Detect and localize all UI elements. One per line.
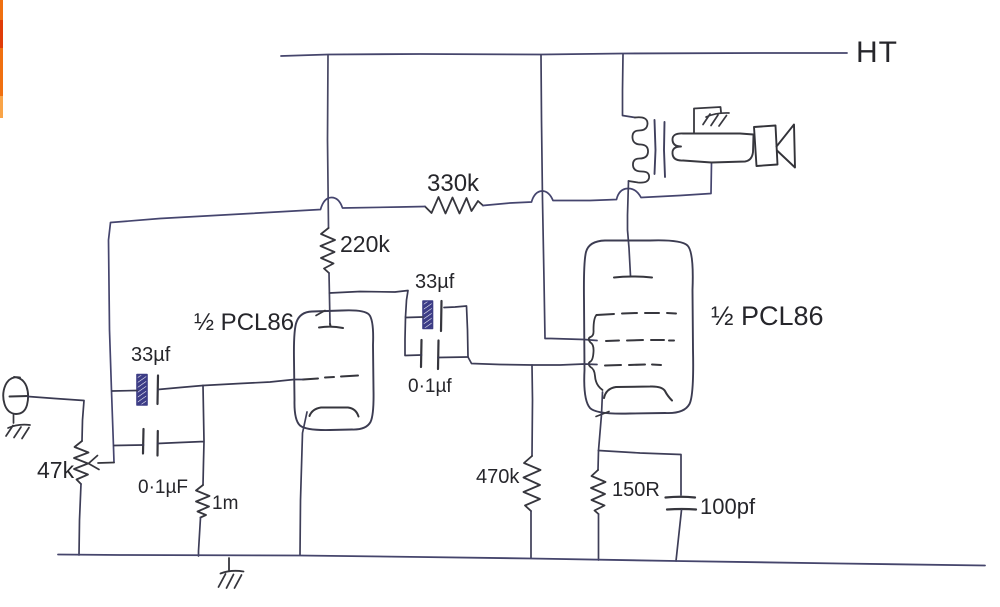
triode U1 cathode xyxy=(310,408,359,417)
wire 220k to triode anode xyxy=(329,273,330,324)
svg-text:470k: 470k xyxy=(476,466,520,488)
svg-text:HT: HT xyxy=(856,36,898,69)
svg-text:½ PCL86: ½ PCL86 xyxy=(711,301,824,331)
transformer secondary / speaker coupling body xyxy=(672,133,753,162)
wire 100pf to rail xyxy=(676,510,682,561)
triode U1 grid (dashed) xyxy=(303,376,358,380)
svg-text:½ PCL86: ½ PCL86 xyxy=(194,309,294,336)
ground at input jack xyxy=(6,414,30,439)
potentiometer 47k wiper arrow xyxy=(89,456,115,470)
wire 33uF interstage left lead xyxy=(406,316,423,319)
wire 150R to rail xyxy=(598,514,600,560)
wire G1 line to pentode (from coupling caps) xyxy=(468,357,597,365)
tick triode anode lead crossing envelope xyxy=(316,311,325,316)
wire 0.1uF input right lead to grid junction vertical xyxy=(158,386,205,486)
wire 33uF interstage right lead down to G1 line xyxy=(444,306,468,357)
capacitor 100pf xyxy=(666,497,697,510)
wire ground rail (bottom) xyxy=(58,555,985,566)
wire 0.1uf interstage left lead xyxy=(405,317,422,356)
wire grid junction to triode grid xyxy=(203,380,303,386)
wire 0.1uF input left lead xyxy=(114,444,144,447)
pentode U2 grid3 (dashed) xyxy=(597,313,677,315)
pentode U2 grid1 (dashed) xyxy=(605,365,661,366)
input jack tip contact xyxy=(10,395,29,398)
wire HT to 220k (vertical at x=328) xyxy=(328,55,329,228)
ground at transformer secondary xyxy=(703,113,729,126)
wire 1m to rail xyxy=(199,518,201,557)
capacitor 33uF interstage hatched plate xyxy=(423,301,433,329)
pentode U2 cathode xyxy=(604,386,672,400)
svg-text:330k: 330k xyxy=(427,170,480,197)
wire triode cathode down to ground rail xyxy=(300,412,307,555)
svg-text:33µf: 33µf xyxy=(415,271,455,293)
wire 470k top xyxy=(531,365,534,456)
wire 33uF input right lead to grid junction xyxy=(158,386,203,390)
wire feedback run (secondary to input, with hops) xyxy=(109,163,712,463)
capacitor 0.1uf interstage xyxy=(421,340,439,369)
wire 47k to rail xyxy=(79,484,81,555)
wire HT to screen grid (vertical at x=541, down to G2) xyxy=(541,55,597,341)
wire 0.1uf interstage right lead xyxy=(438,356,468,359)
svg-text:220k: 220k xyxy=(340,231,390,257)
pentode U2 grid2 screen (dashed) xyxy=(606,340,674,341)
wire cathode junction to 150R and rail xyxy=(597,451,600,471)
input jack xyxy=(3,377,28,414)
transformer core xyxy=(655,120,666,177)
triode U1 anode xyxy=(319,324,343,328)
resistor 1m xyxy=(196,485,210,518)
ground symbol at bottom rail xyxy=(219,558,244,588)
svg-text:0·1µf: 0·1µf xyxy=(408,376,452,397)
resistor 330k xyxy=(425,197,483,214)
svg-text:100pf: 100pf xyxy=(700,494,756,519)
pentode U2 half PCL86 envelope xyxy=(584,240,693,413)
speaker driver xyxy=(754,126,778,167)
svg-text:0·1µF: 0·1µF xyxy=(138,477,188,498)
resistor 220k xyxy=(321,228,336,273)
resistor 470k xyxy=(524,456,541,511)
wire cathode junction to 100pf xyxy=(599,451,682,496)
wire 33uF input left lead xyxy=(112,390,137,393)
pentode U2 anode xyxy=(614,277,652,278)
resistor 150R xyxy=(591,470,606,514)
capacitor 33uF input hatched plate xyxy=(137,375,147,406)
svg-text:47k: 47k xyxy=(37,457,75,483)
svg-text:1m: 1m xyxy=(212,493,238,514)
wire HT to transformer primary (vertical at x=623) xyxy=(623,55,636,118)
pentode U2 suppressor to cathode internal link xyxy=(589,315,603,390)
triode U1 half PCL86 envelope xyxy=(294,310,374,430)
wire primary to pentode anode (with hop under feedback) xyxy=(628,181,631,276)
transformer primary coil xyxy=(629,117,650,182)
wire pentode cathode down xyxy=(599,392,603,451)
capacitor 33uF interstage right plate xyxy=(440,301,443,331)
capacitor 33uF input right plate xyxy=(156,376,159,405)
svg-text:33µf: 33µf xyxy=(131,344,171,366)
wire HT rail xyxy=(281,53,847,56)
wire 470k to rail xyxy=(530,511,532,558)
wire jack to pot xyxy=(28,397,84,442)
speaker horn xyxy=(777,125,796,168)
capacitor 0.1uF input xyxy=(143,429,158,456)
wire anode branch to coupling caps xyxy=(330,291,409,318)
tick pentode cathode lead crossing envelope xyxy=(596,412,609,417)
wire secondary top to ground xyxy=(694,107,721,133)
svg-text:150R: 150R xyxy=(612,479,660,501)
potentiometer 47k xyxy=(74,441,89,484)
